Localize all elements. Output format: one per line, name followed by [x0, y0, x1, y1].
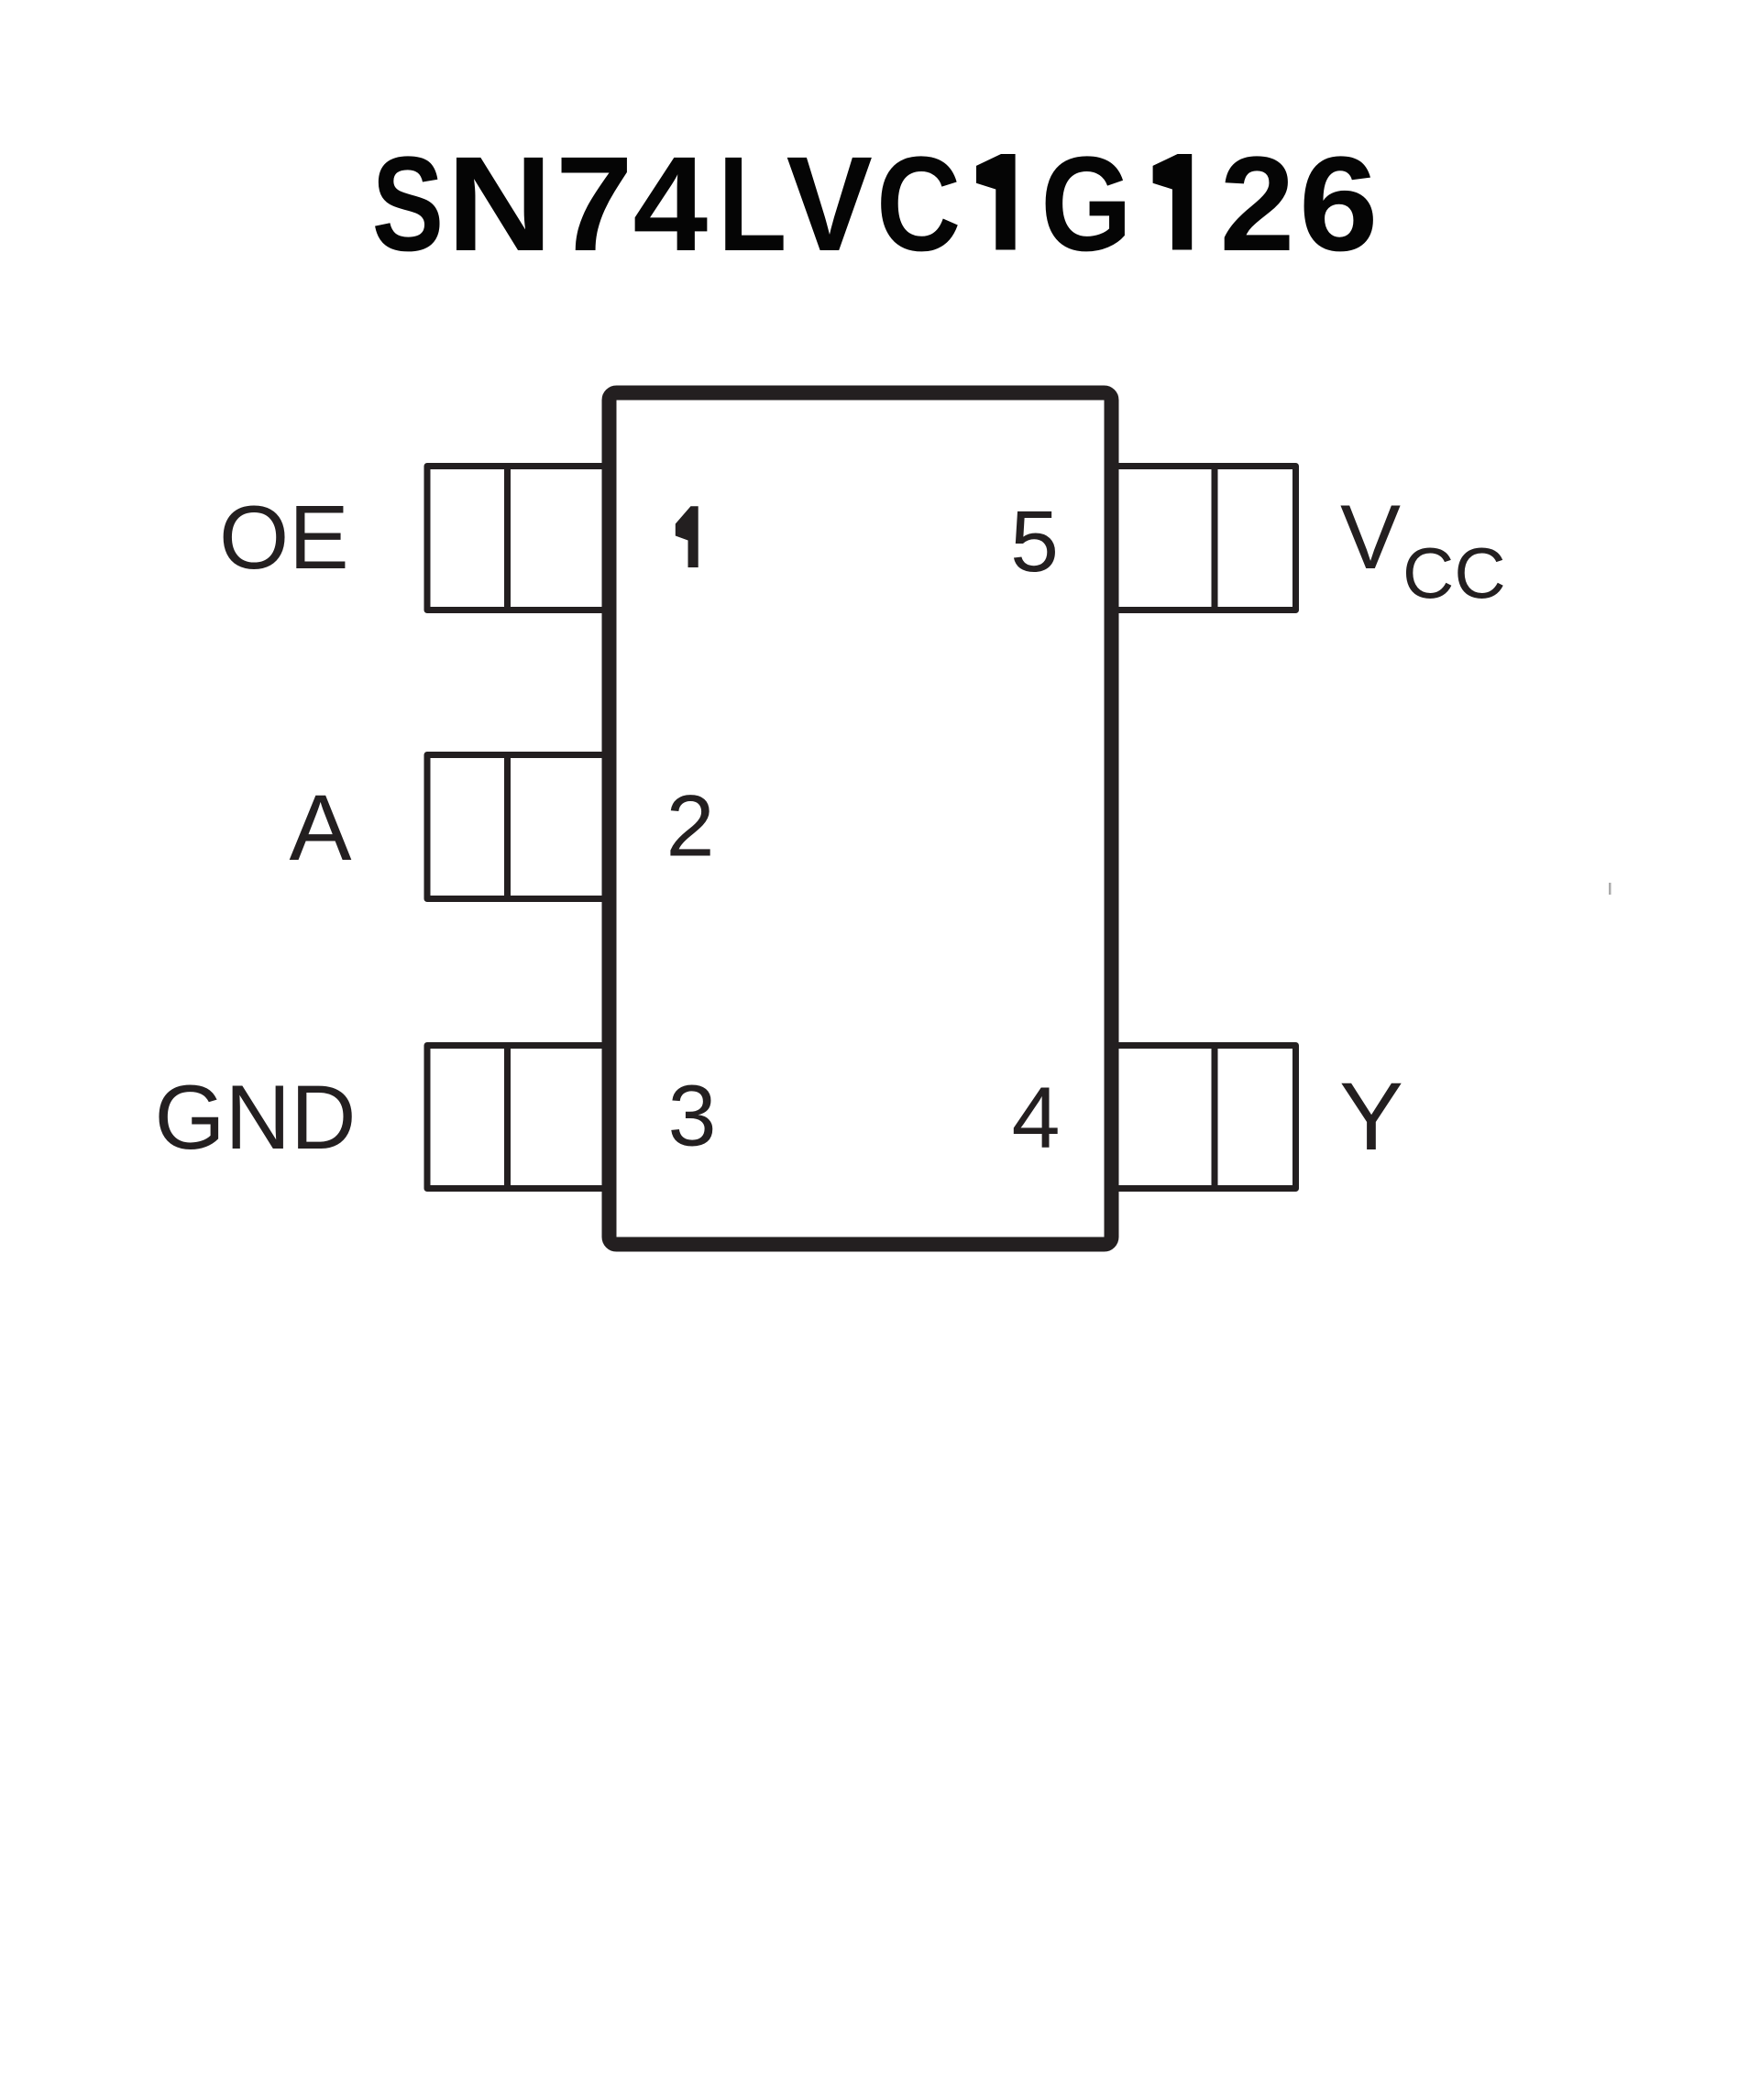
svg-text:N: N	[446, 128, 553, 279]
svg-text:V: V	[786, 128, 873, 279]
svg-text:4: 4	[632, 129, 708, 280]
svg-text:OE: OE	[219, 487, 349, 588]
svg-text:2: 2	[1220, 129, 1295, 280]
svg-text:A: A	[290, 775, 352, 880]
svg-text:G: G	[1040, 129, 1131, 280]
svg-text:V: V	[1340, 486, 1401, 588]
svg-text:L: L	[718, 128, 786, 280]
svg-text:4: 4	[1012, 1070, 1061, 1167]
svg-text:C: C	[876, 129, 961, 280]
svg-text:Y: Y	[1339, 1063, 1403, 1171]
svg-text:2: 2	[666, 778, 715, 875]
svg-text:5: 5	[1010, 493, 1059, 590]
svg-text:7: 7	[555, 128, 633, 279]
svg-text:GND: GND	[155, 1066, 357, 1168]
svg-text:S: S	[372, 128, 444, 280]
svg-text:CC: CC	[1402, 533, 1506, 613]
svg-text:3: 3	[668, 1068, 717, 1165]
svg-text:6: 6	[1299, 129, 1379, 280]
